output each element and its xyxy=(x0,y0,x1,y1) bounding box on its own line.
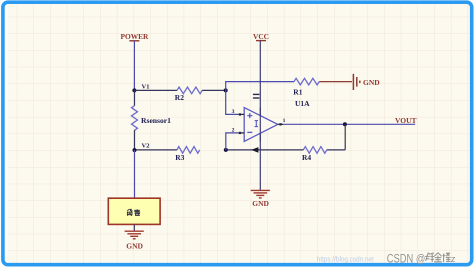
wire feedback corner to R4 xyxy=(327,149,346,151)
wire V1 to R2 xyxy=(134,89,177,91)
resistor Rsensor1 xyxy=(132,106,172,131)
svg-text:VCC: VCC xyxy=(253,32,269,41)
power port GND (bar style) xyxy=(353,74,380,90)
svg-text:z: z xyxy=(451,254,456,265)
resistor R4 xyxy=(302,147,327,162)
power port POWER xyxy=(120,32,149,41)
wire R4 to -input rail xyxy=(226,149,303,151)
wire junction up to pin 2 xyxy=(226,133,239,150)
node V1 xyxy=(132,84,149,93)
node V2 xyxy=(133,143,150,153)
wire junction up to top rail xyxy=(226,82,294,91)
wire R2 to +input node xyxy=(202,89,226,91)
wire VCC power rail down through op-amp to ground xyxy=(259,41,261,191)
svg-text:R2: R2 xyxy=(175,93,184,102)
svg-text:GND: GND xyxy=(126,241,143,250)
wire output to VOUT xyxy=(283,123,415,125)
svg-text:U1A: U1A xyxy=(295,99,310,108)
svg-text:3: 3 xyxy=(232,109,235,115)
wire load to ground xyxy=(133,224,135,231)
load box xyxy=(108,198,160,224)
svg-text:GND: GND xyxy=(363,78,380,87)
power port VCC xyxy=(253,32,269,41)
svg-text:CSDN @: CSDN @ xyxy=(387,251,426,265)
pin 3 xyxy=(232,109,245,115)
wire R1 to GND bar xyxy=(319,81,352,83)
op-amp U1A xyxy=(244,94,310,141)
wire POWER to V1 xyxy=(133,41,135,91)
wire Rsensor1 to V2 xyxy=(134,130,136,150)
svg-text:Rsensor1: Rsensor1 xyxy=(141,116,171,125)
ground GND (earth) below op-amp xyxy=(251,190,270,207)
svg-text:R3: R3 xyxy=(175,153,184,162)
wire junction down to pin 3 xyxy=(226,90,239,114)
wire feedback down xyxy=(344,124,346,150)
ground GND (earth) below load xyxy=(125,231,144,250)
pin 1 (output) xyxy=(278,118,286,125)
svg-text:VOUT: VOUT xyxy=(395,116,417,125)
node junction at +input branch xyxy=(224,88,228,92)
arrow marker on rail at power crossing xyxy=(251,147,258,153)
resistor R1 xyxy=(293,78,319,96)
svg-text:V1: V1 xyxy=(142,84,150,91)
node feedback junction on output xyxy=(343,122,347,126)
svg-text:R4: R4 xyxy=(302,153,311,162)
wire V2 down to load xyxy=(134,150,136,198)
resistor R3 xyxy=(175,147,200,162)
wire V2 to R3 xyxy=(135,149,177,151)
watermark CSDN xyxy=(387,251,456,265)
svg-text:R1: R1 xyxy=(293,88,302,97)
svg-text:1: 1 xyxy=(283,118,286,124)
svg-text:GND: GND xyxy=(252,199,269,208)
node junction at -input branch xyxy=(224,148,228,152)
resistor R2 xyxy=(175,87,202,102)
pin 2 xyxy=(232,127,245,134)
svg-text:https://blog.csdn.net: https://blog.csdn.net xyxy=(317,254,375,263)
svg-text:V2: V2 xyxy=(142,143,150,150)
svg-text:POWER: POWER xyxy=(120,32,149,41)
wire V1 to Rsensor1 xyxy=(134,90,136,105)
